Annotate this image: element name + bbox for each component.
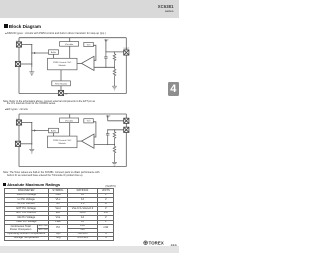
- capacitor Cd circuit 2: [106, 130, 109, 145]
- wire: lx node rail circuit 2: [108, 120, 124, 122]
- note under circuit 1: [3, 100, 95, 103]
- wire: vout node rail circuit 1: [106, 51, 124, 53]
- wire: vo table stems circuit 1: [69, 38, 71, 59]
- wire: gate tap to buffer circuit 2: [32, 130, 49, 132]
- wire: top rail circuit 2: [19, 113, 126, 115]
- pad VOUT circuit 1: [124, 50, 129, 55]
- header band: [0, 0, 179, 18]
- svg-text:Vref: Vref: [87, 44, 91, 46]
- svg-text:PWM Control OSC: PWM Control OSC: [53, 139, 72, 142]
- gate arrow circuit 1: [34, 52, 36, 54]
- resistor R2 circuit 1: [113, 67, 116, 86]
- junction dots circuit 2: [31, 122, 115, 145]
- section heading: Absolute Maximum Ratings: [3, 182, 61, 187]
- wire: right rail circuit 1: [125, 38, 127, 94]
- gate arrow circuit 2: [34, 129, 36, 131]
- pad Lx right circuit 2: [124, 118, 129, 123]
- wire: pad2 link circuit 2: [21, 143, 32, 145]
- wire: right rail circuit 2: [125, 114, 127, 167]
- wire: vo table stems circuit 2: [69, 114, 71, 136]
- Ta note: [100, 186, 116, 188]
- svg-text:V/o table: V/o table: [65, 119, 74, 122]
- pad Vdd2 left circuit 2: [15, 141, 20, 146]
- wire: amp output circuit 1: [77, 62, 82, 64]
- header title XC6381: [0, 4, 174, 9]
- wire: pad1 to divider node circuit 1: [22, 45, 32, 68]
- svg-text:Buffer: Buffer: [51, 130, 57, 132]
- box Vref circuit 1: [84, 42, 94, 46]
- svg-text:PWM Control OSC: PWM Control OSC: [53, 61, 72, 64]
- resistor R1 circuit 2: [113, 130, 116, 145]
- op-amp error amp circuit 2: [82, 134, 95, 148]
- pad Vdd2 circuit 1: [15, 61, 20, 66]
- wire: vout node rail circuit 2: [108, 129, 124, 131]
- wire: left rail circuit 1: [18, 38, 20, 94]
- bullet caption 2: [5, 108, 28, 111]
- resistor R2 circuit 2: [113, 145, 116, 163]
- bullet caption 1: [5, 32, 177, 35]
- svg-text:V/o table: V/o table: [65, 43, 74, 46]
- wire: vdd stem circuit 1: [105, 41, 107, 52]
- wire: buffer stem circuit 2: [53, 133, 55, 136]
- wire: vref box to amp input circuit 2: [93, 122, 96, 137]
- svg-text:VOUT: VOUT: [124, 48, 130, 50]
- op-amp error amp circuit 1: [82, 56, 95, 70]
- footer page number: [171, 244, 177, 248]
- box V/o table circuit 2: [60, 118, 79, 123]
- wire: gate tap to buffer circuit 1: [32, 52, 49, 54]
- wire: feedback tap circuit 1: [94, 66, 115, 68]
- box Buffer circuit 2: [49, 128, 59, 133]
- chapter tab 4: [168, 82, 179, 96]
- box V/o table circuit 1: [60, 42, 79, 47]
- wire: pad1 to divider node circuit 2: [22, 123, 32, 146]
- svg-text:TOREX: TOREX: [149, 241, 164, 246]
- ratings table: [4, 188, 115, 241]
- wire: filter stems circuit 1: [60, 70, 62, 91]
- pad Lx left circuit 2: [16, 120, 21, 125]
- pad CE circuit 1: [58, 90, 63, 95]
- svg-text:Vref: Vref: [87, 121, 91, 123]
- note under circuit 2: [3, 171, 100, 174]
- svg-text:Module: Module: [59, 143, 67, 145]
- wire: left rail circuit 2: [18, 114, 20, 167]
- circuit diagram 1 (SVG): [0, 0, 179, 253]
- header subtitle series: [0, 9, 174, 13]
- wire: amp output circuit 2: [77, 140, 82, 142]
- box Filter Module circuit 1: [52, 81, 71, 86]
- wire: top rail circuit 1: [19, 37, 126, 39]
- ground left circuit 1: [29, 67, 34, 76]
- box PWM control circuit 1: [48, 58, 78, 70]
- wire: feedback tap circuit 2: [94, 144, 115, 146]
- wire: pad2 link circuit 1: [21, 63, 32, 65]
- pad VOUT right circuit 2: [124, 127, 129, 132]
- wire: bottom rail circuit 2: [19, 166, 126, 168]
- pad Lx circuit 1: [16, 42, 21, 47]
- vdd terminal dot circuit 2: [107, 116, 109, 117]
- box Vref circuit 2: [84, 119, 94, 123]
- wire: vdd stem circuit 2: [107, 117, 109, 121]
- footer torex logo: [143, 240, 165, 246]
- wire: bottom rail circuit 1: [19, 93, 126, 95]
- capacitor Cd circuit 1: [104, 52, 107, 67]
- box Buffer circuit 1: [49, 50, 59, 55]
- ground left circuit 2: [29, 145, 34, 153]
- box PWM control circuit 2: [48, 136, 78, 148]
- svg-text:Filter Module: Filter Module: [55, 82, 68, 85]
- wire: buffer stem circuit 1: [53, 54, 55, 58]
- wire: vref box to amp input circuit 1: [93, 45, 96, 60]
- ground right circuit 1: [112, 86, 117, 90]
- resistor R1 circuit 1: [113, 52, 116, 67]
- ground right circuit 2: [112, 162, 117, 166]
- section heading: Block Diagram: [4, 24, 41, 29]
- svg-text:Buffer: Buffer: [51, 52, 57, 54]
- junction dots circuit 1: [31, 44, 115, 68]
- footer band: [0, 246, 179, 253]
- svg-text:Module: Module: [59, 65, 67, 67]
- vdd terminal dot circuit 1: [105, 40, 107, 41]
